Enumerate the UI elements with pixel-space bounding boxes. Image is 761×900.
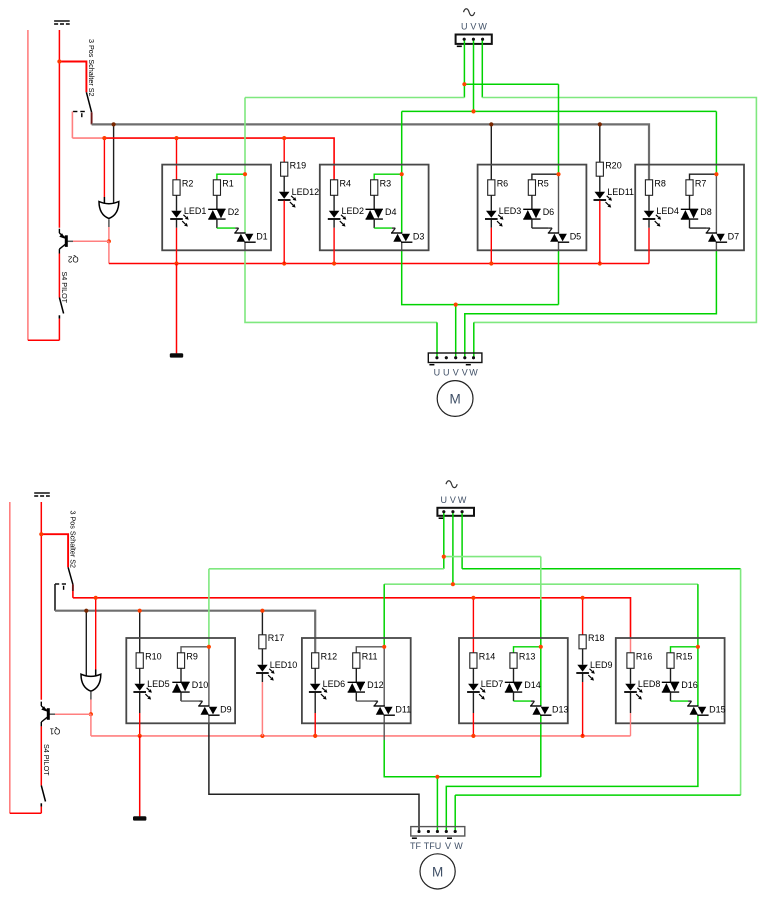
wire D9 rail upper — [208, 569, 210, 706]
triac D5 — [548, 231, 581, 242]
svg-text:D11: D11 — [395, 704, 411, 714]
junction elbow R7 — [714, 172, 718, 176]
wire base of Q2 — [66, 240, 109, 242]
junction U row (lower) — [442, 555, 446, 559]
wire red to switch S2 (lower) — [41, 534, 68, 567]
wire D11 rail lower — [384, 715, 541, 777]
wire pale left rail — [27, 30, 29, 340]
svg-text:R9: R9 — [186, 651, 198, 661]
wire to ground bar — [176, 264, 178, 354]
wire R1 to D2 — [216, 195, 218, 209]
red bus salmon part — [72, 137, 104, 139]
junction black bus / gate input — [84, 609, 88, 613]
wire S2 blade to gray bus — [91, 112, 93, 124]
resistor R16 — [627, 651, 653, 668]
resistor R17 — [259, 633, 285, 649]
resistor R12 — [312, 651, 338, 668]
switch S4 blade (lower) — [41, 786, 45, 802]
wire R13 to D14 — [513, 668, 515, 682]
junction salmon bus x=473.4 — [471, 734, 475, 738]
wire gate of D11 — [356, 692, 378, 706]
wire R12 to LED6 — [314, 668, 316, 684]
svg-text:D3: D3 — [413, 231, 425, 241]
connector X1 key mark — [457, 45, 462, 47]
switch S2 blade — [86, 92, 91, 112]
svg-text:V: V — [445, 841, 451, 851]
svg-text:R2: R2 — [182, 178, 194, 188]
junction bottom bus x=491.3 — [489, 261, 493, 265]
connector X3 U V W — [437, 508, 474, 516]
junction rail/S2 — [57, 59, 61, 63]
resistor R9 — [177, 651, 198, 668]
AC source sine (lower) — [446, 481, 457, 488]
svg-text:3 Pos Schalter S2: 3 Pos Schalter S2 — [69, 511, 78, 569]
wire base of Q1 — [48, 713, 91, 715]
labels U U V V W — [434, 368, 479, 378]
wire gate of D1 — [217, 219, 239, 233]
svg-text:D13: D13 — [552, 704, 569, 714]
switch S2 contact — [73, 112, 85, 118]
svg-text:R11: R11 — [362, 651, 378, 661]
svg-text:W: W — [454, 841, 463, 851]
wire R8 to LED4 — [648, 195, 650, 211]
motor M2 — [420, 854, 455, 889]
module box D9 — [126, 638, 235, 723]
LED LED9 — [576, 660, 612, 680]
junction salmon bus x=262.4 — [260, 734, 264, 738]
svg-text:LED3: LED3 — [499, 206, 522, 216]
switch S2 blade (lower) — [68, 567, 73, 584]
wire U drop — [463, 39, 465, 84]
wire R17 to LED10 — [261, 649, 263, 665]
triac D10 — [172, 680, 208, 692]
junction elbow R1 — [243, 172, 247, 176]
module box D7 — [635, 165, 744, 251]
wire W drop (lower) — [461, 512, 463, 569]
wire gate output to salmon bus — [91, 714, 631, 736]
wire gate output to bottom bus — [109, 241, 649, 263]
svg-text:R14: R14 — [479, 651, 496, 661]
wire elbow above R1 — [217, 174, 245, 180]
wire feed R14 — [472, 598, 474, 653]
svg-text:LED9: LED9 — [590, 660, 613, 670]
wire W drop — [481, 39, 483, 97]
wire U drop (lower) — [443, 512, 445, 557]
svg-text:R13: R13 — [519, 651, 536, 661]
svg-text:LED11: LED11 — [607, 187, 634, 197]
wire elbow above R13 — [514, 647, 541, 653]
wire V drop (lower) — [452, 512, 454, 584]
svg-text:R7: R7 — [695, 178, 707, 188]
LED LED7 — [467, 679, 503, 700]
svg-text:S4 PILOT: S4 PILOT — [60, 272, 69, 304]
junction V row (lower) — [451, 582, 455, 586]
junction gate output — [107, 239, 111, 243]
svg-text:R18: R18 — [588, 633, 605, 643]
wire R10 to LED5 — [139, 668, 141, 684]
ground bar below box1 — [170, 353, 183, 357]
svg-text:R17: R17 — [268, 633, 285, 643]
gray bus — [92, 124, 649, 179]
resistor R7 — [686, 178, 707, 195]
svg-text:D2: D2 — [228, 207, 240, 217]
resistor R4 — [331, 178, 352, 195]
junction elbow R13 — [539, 645, 543, 649]
wire LED11 to bottom bus — [599, 201, 601, 264]
wire row B right W net (lower) — [455, 569, 740, 832]
wire rail to S4 bottom (lower) — [10, 812, 42, 814]
resistor R18 — [579, 633, 605, 649]
junction feed R6 — [489, 122, 493, 126]
junction feed R20 — [598, 122, 602, 126]
svg-text:LED8: LED8 — [638, 679, 661, 689]
connector X4 key marks — [412, 837, 452, 839]
svg-text:U: U — [443, 368, 450, 378]
wire elbow above R9 — [181, 647, 209, 653]
wire S2 contact leg to black bus — [54, 584, 56, 611]
wire pin3 drop — [455, 305, 457, 358]
red bus (lower) — [73, 598, 631, 653]
switch S4 contact (lower) — [40, 803, 42, 806]
wire U to rowB (lower) — [443, 557, 445, 569]
svg-text:M: M — [432, 864, 443, 879]
svg-text:D1: D1 — [256, 231, 268, 241]
junction elbow R5 — [556, 172, 560, 176]
module box D15 — [616, 638, 725, 723]
svg-text:U: U — [461, 22, 468, 32]
AC source sine — [464, 9, 475, 16]
wire pale left rail bottom — [9, 502, 11, 813]
module box D13 — [459, 638, 568, 723]
junction bottom bus x=284.2 — [282, 261, 286, 265]
triac D11 — [374, 704, 412, 715]
triac D2 — [208, 207, 239, 219]
junction pin3 row (lower) — [435, 775, 439, 779]
junction bottom bus x=334.1 — [332, 261, 336, 265]
triac D12 — [348, 680, 384, 692]
resistor R14 — [470, 651, 496, 668]
resistor R15 — [667, 651, 693, 668]
wire feed R2 — [176, 138, 178, 180]
wire LED10 to salmon bus — [261, 674, 263, 736]
wire gate of D13 — [514, 692, 535, 706]
wire S4 to corner — [58, 319, 60, 341]
switch S4 contact — [58, 315, 60, 318]
wire R7 to D8 — [689, 195, 691, 209]
wire D1 rail lower — [245, 242, 437, 358]
black bus — [55, 611, 315, 653]
LED LED11 — [594, 187, 635, 207]
wire below LED8 — [630, 693, 632, 736]
wire D5 rail lower — [558, 242, 560, 304]
wire D3 rail lower — [402, 242, 559, 304]
svg-text:V: V — [462, 368, 468, 378]
wire rail to S4 bottom — [28, 339, 60, 341]
wire R9 to D10 — [180, 668, 182, 682]
connector X4 TF TFU V W — [411, 827, 465, 836]
wire D11 rail upper — [383, 584, 385, 706]
junction pin3 row — [454, 303, 458, 307]
svg-text:D15: D15 — [709, 704, 726, 714]
svg-text:R3: R3 — [380, 178, 392, 188]
junction feed R19 — [282, 136, 286, 140]
svg-text:D7: D7 — [728, 231, 740, 241]
svg-text:LED4: LED4 — [656, 206, 679, 216]
svg-text:W: W — [478, 22, 487, 32]
wire feed R19 — [283, 138, 285, 162]
junction feed R14 — [471, 596, 475, 600]
labels U V W — [461, 22, 487, 32]
wire R3 to D4 — [373, 195, 375, 209]
wire V drop — [473, 39, 475, 111]
wire R4 to LED2 — [333, 195, 335, 211]
wire gate of D9 — [181, 692, 203, 706]
wire below LED5 — [139, 693, 141, 736]
svg-text:LED1: LED1 — [184, 206, 207, 216]
resistor R10 — [136, 651, 162, 668]
svg-text:R5: R5 — [537, 178, 549, 188]
wire S2 blade to red bus (lower) — [72, 584, 74, 597]
connector X2 key marks — [429, 364, 470, 366]
svg-text:R12: R12 — [321, 651, 338, 661]
svg-text:LED10: LED10 — [270, 660, 298, 670]
wire below LED4 — [648, 220, 650, 264]
junction salmon bus x=139.7 — [138, 734, 142, 738]
switch S2 contact (lower) — [55, 584, 66, 590]
wire below LED1 — [176, 220, 178, 264]
wire U to rowB — [463, 84, 465, 97]
wire red rail below earth — [58, 30, 60, 228]
triac D1 — [234, 231, 267, 242]
junction bottom bus x=176.5 — [174, 261, 178, 265]
svg-text:V: V — [453, 368, 459, 378]
svg-text:V: V — [450, 495, 456, 505]
wire D1 rail upper — [244, 98, 246, 234]
wire gate output (lower) — [90, 692, 92, 714]
svg-text:3 Pos Schalter S2: 3 Pos Schalter S2 — [87, 39, 96, 97]
LED LED12 — [278, 187, 319, 207]
junction red bus / gate input (lower) — [94, 596, 98, 600]
wire R6 to LED3 — [490, 195, 492, 211]
wire R15 to D16 — [670, 668, 672, 682]
svg-text:D6: D6 — [543, 207, 555, 217]
triac D16 — [662, 680, 698, 692]
label 3 Pos Schalter S2 (lower) — [69, 511, 78, 569]
wire gate of D15 — [671, 692, 692, 706]
wire below LED2 — [333, 220, 335, 264]
svg-text:D4: D4 — [385, 207, 397, 217]
LED LED3 — [485, 206, 521, 227]
svg-text:R10: R10 — [145, 651, 162, 661]
earth ground top-left — [54, 21, 70, 24]
wire below LED6 — [314, 693, 316, 736]
LED LED8 — [624, 679, 660, 700]
wire gate of D7 — [690, 219, 711, 233]
junction feed R2 — [174, 136, 178, 140]
module box D3 — [320, 165, 429, 251]
svg-text:W: W — [469, 368, 478, 378]
wire elbow above R15 — [671, 647, 698, 653]
transistor Q1 — [41, 702, 60, 736]
junction bottom bus x=599.8 — [598, 261, 602, 265]
resistor R3 — [371, 178, 392, 195]
junction elbow R11 — [382, 645, 386, 649]
LED LED5 — [133, 679, 169, 700]
module box D5 — [478, 165, 587, 251]
wire D5 rail upper — [558, 84, 560, 233]
junction elbow R9 — [207, 645, 211, 649]
LED LED10 — [256, 660, 297, 680]
wire D13 rail upper — [540, 557, 542, 706]
svg-text:LED6: LED6 — [323, 679, 346, 689]
wire red to switch S2 — [59, 62, 86, 93]
label S4 PILOT — [60, 272, 69, 304]
wire pin3 drop (lower) — [436, 777, 438, 832]
wire R19 to LED12 — [283, 176, 285, 192]
junction U row A — [462, 82, 466, 86]
wire gate input red — [103, 138, 105, 204]
svg-text:D8: D8 — [700, 207, 712, 217]
connector pins overlay — [418, 38, 485, 833]
svg-text:R4: R4 — [340, 178, 352, 188]
wire elbow above R11 — [356, 647, 384, 653]
module box D1 — [162, 165, 271, 251]
or-gate U4 — [81, 674, 101, 691]
svg-text:LED5: LED5 — [147, 679, 170, 689]
svg-text:U: U — [441, 495, 448, 505]
junction feed R17 — [260, 609, 264, 613]
motor M1 — [437, 381, 473, 417]
label S4 PILOT (lower) — [42, 744, 51, 776]
svg-text:W: W — [458, 495, 467, 505]
svg-text:D14: D14 — [524, 680, 541, 690]
wire R14 to LED7 — [472, 668, 474, 684]
label 3 Pos Schalter S2 — [87, 39, 96, 97]
wire feed R20 — [599, 124, 601, 162]
svg-text:LED12: LED12 — [292, 187, 320, 197]
wire elbow above R3 — [374, 174, 402, 180]
junction feed R10 — [138, 609, 142, 613]
junction rail/S2 (lower) — [39, 532, 43, 536]
wire row D (V net) — [402, 110, 717, 112]
red bus — [104, 138, 334, 180]
resistor R6 — [488, 178, 509, 195]
resistor R13 — [510, 651, 536, 668]
wire D7 rail upper — [715, 111, 717, 233]
wire S4 to corner (lower) — [40, 807, 42, 814]
wire emitter to S4 (lower) — [40, 726, 42, 785]
svg-text:R19: R19 — [290, 161, 307, 171]
svg-text:TF: TF — [410, 841, 421, 851]
connector X2 U U V V W — [428, 353, 482, 363]
wire feed R17 — [261, 611, 263, 635]
earth ground bottom-left — [34, 493, 50, 496]
LED LED4 — [643, 206, 679, 227]
triac D15 — [687, 704, 725, 715]
wire R18 to LED9 — [582, 649, 584, 665]
triac D4 — [366, 207, 397, 219]
wire row A to D5 rail — [464, 83, 558, 85]
wire D7 rail lower — [465, 242, 717, 358]
svg-text:R1: R1 — [222, 178, 234, 188]
junction salmon bus x=582.6 — [581, 734, 585, 738]
triac D7 — [706, 231, 739, 242]
wire D15 rail lower — [446, 715, 698, 831]
wire below LED7 — [472, 693, 474, 736]
module box D11 — [302, 638, 411, 723]
junction feed R18 — [581, 596, 585, 600]
wire row B left (U net) — [245, 97, 464, 99]
ground bar below box1 (lower) — [133, 816, 146, 820]
junction salmon bus x=315.2 — [313, 734, 317, 738]
triac D9 — [198, 704, 231, 715]
wire D9 rail lower TF net — [209, 715, 419, 831]
wire R2 to LED1 — [176, 195, 178, 211]
transistor Q2 — [59, 229, 78, 264]
svg-text:TFU: TFU — [424, 841, 442, 851]
triac D6 — [523, 207, 554, 219]
or-gate U3 — [99, 202, 119, 219]
svg-text:U: U — [434, 368, 441, 378]
resistor R1 — [213, 178, 234, 195]
wire gate input black — [113, 124, 115, 204]
wire D13 rail lower — [540, 715, 542, 777]
wire gate input red (lower) — [95, 598, 97, 677]
wire S2 contact leg — [71, 112, 73, 139]
wire R11 to D12 — [355, 668, 357, 682]
resistor R20 — [596, 161, 622, 177]
resistor R5 — [528, 178, 549, 195]
svg-text:Q1: Q1 — [49, 726, 60, 735]
wire row U to D13 rail — [444, 556, 541, 558]
triac D14 — [505, 680, 541, 692]
wire feed R6 — [490, 124, 492, 179]
LED LED6 — [309, 679, 345, 700]
wire D15 rail upper — [697, 584, 699, 706]
triac D13 — [530, 704, 568, 715]
LED LED2 — [328, 206, 364, 227]
wire gate of D5 — [532, 219, 552, 233]
svg-text:D10: D10 — [192, 680, 209, 690]
svg-text:R8: R8 — [654, 178, 666, 188]
resistor R19 — [281, 161, 307, 177]
switch S4 blade — [59, 298, 63, 314]
svg-text:D5: D5 — [570, 231, 582, 241]
wire emitter to S4 — [58, 254, 60, 298]
svg-text:D12: D12 — [367, 680, 384, 690]
junction gray bus / gate input — [112, 122, 116, 126]
junction elbow R15 — [696, 645, 700, 649]
wire R5 to D6 — [531, 195, 533, 209]
wire elbow above R5 — [532, 174, 559, 180]
wire gate of D3 — [374, 219, 395, 233]
svg-text:Q2: Q2 — [67, 255, 78, 264]
wire gate output — [108, 219, 110, 241]
wire feed R18 — [582, 598, 584, 635]
wire row B right (W net) — [474, 98, 757, 358]
junction elbow R3 — [400, 172, 404, 176]
svg-text:D9: D9 — [220, 704, 232, 714]
svg-text:S4 PILOT: S4 PILOT — [42, 744, 51, 776]
wire LED9 to salmon bus — [582, 674, 584, 736]
junction V row D — [471, 109, 475, 113]
svg-text:R16: R16 — [636, 651, 653, 661]
connector X1 U V W — [456, 35, 492, 44]
triac D3 — [391, 231, 424, 242]
resistor R2 — [173, 178, 194, 195]
wire below LED3 — [490, 220, 492, 264]
wire row V (lower) — [384, 583, 698, 585]
